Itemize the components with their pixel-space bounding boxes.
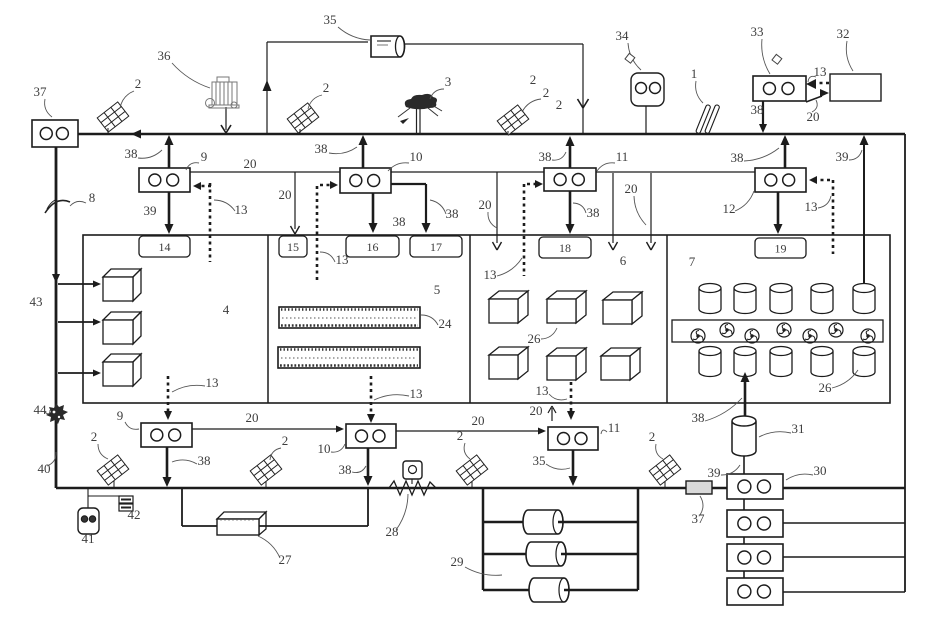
solar panel 2 (top-left) — [97, 102, 129, 132]
wire chiller1 right — [558, 521, 638, 523]
arrow down on storage return leg — [578, 99, 584, 108]
wire 20 lower from 9 to 10 — [192, 428, 340, 430]
bus flow arrow (left, toward meter 37) — [131, 130, 141, 139]
riser 39 from store bank to bus — [863, 142, 865, 284]
arrow 38 from unit 10 down to vent 16 — [372, 193, 375, 225]
svg-text:13: 13 — [536, 383, 549, 398]
wire: distribution line 20 between units 9-12 — [190, 171, 757, 173]
wire: generator 36 stem to bus — [225, 107, 227, 130]
svg-text:39: 39 — [708, 465, 721, 480]
arrow 38 from unit 11 down to vent 18 — [569, 191, 572, 226]
svg-text:2: 2 — [556, 97, 563, 112]
svg-text:37: 37 — [34, 84, 48, 99]
dashed command 13 from 32 to 33 — [814, 82, 829, 85]
wire to chiller 1 — [483, 521, 523, 523]
svg-text:4: 4 — [223, 302, 230, 317]
battery 42 — [119, 496, 133, 503]
arrow into pump 9 lower — [164, 411, 172, 420]
svg-text:41: 41 — [82, 531, 95, 546]
svg-text:26: 26 — [528, 331, 542, 346]
svg-text:30: 30 — [814, 463, 827, 478]
valve stack 30 box 2 — [727, 510, 783, 537]
wire from unit 10 to vent 17 — [391, 183, 426, 185]
meter 41 — [78, 508, 99, 534]
svg-text:13: 13 — [336, 252, 349, 267]
svg-text:24: 24 — [439, 316, 453, 331]
chiller 29-1 — [523, 510, 563, 534]
equipment cube — [601, 348, 640, 356]
fan tray in section 7 — [672, 320, 883, 342]
small arrow 20 up from lower 11 — [551, 408, 553, 421]
wire: storage 35 to down leg — [405, 43, 583, 45]
svg-text:13: 13 — [235, 202, 248, 217]
arrow 39 from unit 9 down to vent 14 — [168, 192, 171, 226]
svg-text:2: 2 — [91, 429, 98, 444]
stem — [299, 129, 301, 134]
svg-text:36: 36 — [158, 48, 172, 63]
svg-text:15: 15 — [287, 240, 299, 254]
stem — [664, 481, 666, 488]
svg-text:10: 10 — [318, 441, 331, 456]
svg-text:5: 5 — [434, 282, 441, 297]
grid feed 1 (hatch marks) — [696, 104, 720, 134]
valve stack 30 box 4 — [727, 578, 783, 605]
vent 14 — [139, 236, 190, 257]
svg-text:35: 35 — [533, 453, 546, 468]
wire stack box2 to right edge — [783, 522, 905, 524]
svg-text:13: 13 — [805, 199, 818, 214]
pump unit 9 (bottom row) — [141, 423, 192, 447]
burst icon 44 on left edge — [46, 403, 68, 424]
equipment cube — [547, 291, 586, 299]
solar panel 2 (bottom left-center) — [250, 455, 282, 485]
svg-text:20: 20 — [472, 413, 485, 428]
svg-text:13: 13 — [410, 386, 423, 401]
dashed command line 13 into unit 12 — [832, 180, 835, 254]
arrow from generator 36 into bus — [221, 125, 226, 133]
arrow from 33 into bus — [759, 124, 767, 133]
link — [743, 571, 745, 578]
wire: down leg from storage 35 to bus — [582, 44, 584, 134]
equipment cube row 2 — [489, 347, 528, 355]
pump unit 12 — [784, 143, 787, 168]
svg-text:26: 26 — [819, 380, 833, 395]
meter box 37 (grid connection, top-left) — [32, 120, 78, 147]
svg-text:38: 38 — [198, 453, 211, 468]
svg-text:38: 38 — [731, 150, 744, 165]
svg-text:14: 14 — [159, 240, 171, 254]
svg-text:39: 39 — [144, 203, 157, 218]
wire: drop from line 20 into section 5/6 wall area — [496, 172, 498, 243]
arrow into pump 11 lower — [567, 411, 575, 420]
wall between section 5 and 6 — [469, 235, 471, 403]
stem — [507, 131, 509, 134]
stem of 28 — [411, 479, 413, 484]
solar panel 2 (bottom center) — [456, 455, 488, 485]
vent 18 — [539, 237, 591, 258]
svg-text:2: 2 — [543, 85, 550, 100]
wire right drop of 27 loop — [367, 488, 369, 526]
wire to 27 — [182, 525, 217, 527]
load box 32 — [830, 74, 881, 101]
svg-text:39: 39 — [836, 149, 849, 164]
arrow 38 from lower 9 to bottom line — [166, 447, 169, 479]
svg-text:9: 9 — [117, 408, 124, 423]
equipment cube row 1 in section 6 — [489, 291, 528, 299]
solar panel 2 (bottom far-left) — [97, 455, 129, 485]
dashed command 13 in section 6 — [570, 382, 573, 413]
buffer tank 31 — [732, 416, 756, 456]
link — [743, 499, 745, 510]
svg-text:1: 1 — [691, 66, 698, 81]
svg-text:34: 34 — [616, 28, 630, 43]
outer enclosure right edge — [904, 134, 906, 592]
pump unit 10 (bottom row) — [346, 424, 396, 448]
svg-text:2: 2 — [282, 433, 289, 448]
svg-text:8: 8 — [89, 190, 96, 205]
svg-text:20: 20 — [246, 410, 259, 425]
server cabinet 23 — [103, 354, 141, 362]
chiller 29-2 — [526, 542, 566, 566]
heat exchanger 27 (3d box) — [217, 512, 266, 519]
svg-text:6: 6 — [620, 253, 627, 268]
arrow into vent 15 — [291, 226, 296, 234]
vibration zigzag on bottom line at 28 — [389, 481, 436, 495]
arrow up on riser — [263, 80, 272, 91]
svg-text:16: 16 — [367, 240, 379, 254]
arrow into vent 17 — [422, 223, 431, 233]
svg-text:2: 2 — [530, 72, 537, 87]
feed arrow into 22 — [58, 321, 97, 323]
svg-text:38: 38 — [315, 141, 328, 156]
wall between section 4 and 5 — [267, 235, 269, 403]
wire: riser from bus to storage 35 — [266, 42, 268, 134]
svg-text:19: 19 — [775, 242, 787, 256]
svg-text:12: 12 — [723, 201, 736, 216]
pump unit 10 — [362, 144, 365, 168]
pump unit 11 — [569, 144, 572, 168]
arrow at x651 — [647, 242, 652, 250]
wire to meter 41 — [87, 488, 89, 509]
wire to chiller 3 — [483, 589, 529, 591]
svg-text:38: 38 — [751, 102, 764, 117]
sensor 28 (box with circle) — [403, 461, 422, 479]
wire: drop from line 20 to vent 15 — [294, 172, 296, 229]
dashed command 13 in section 5 — [370, 376, 373, 416]
link — [743, 537, 745, 544]
svg-text:13: 13 — [484, 267, 497, 282]
svg-text:38: 38 — [125, 146, 138, 161]
meter box 33 (top-right) — [753, 76, 806, 101]
dashed command line 13 into unit 11 — [523, 184, 526, 276]
vent 16 — [346, 236, 399, 257]
arrow from unit 12 down to vent 19 — [777, 192, 780, 226]
svg-text:42: 42 — [128, 507, 141, 522]
wire buffer 31 to valve stack 30 — [743, 456, 745, 474]
wire: drop from line 20 into section 6 — [612, 173, 614, 243]
wire stack box4 to right edge — [783, 591, 905, 593]
storage tanks 26 top row in section 7 — [699, 284, 721, 314]
svg-text:10: 10 — [410, 149, 423, 164]
wire stack box3 to right edge — [783, 556, 905, 558]
outer enclosure top bus (main energy line) — [78, 133, 905, 136]
facility boundary rectangle (sections 4-7) — [83, 235, 890, 403]
svg-text:33: 33 — [751, 24, 764, 39]
feed arrow into 21 — [58, 283, 97, 285]
outer enclosure left edge — [55, 146, 58, 488]
rack row 24 (lower) — [278, 347, 420, 368]
chiller 29-3 — [529, 578, 569, 602]
vent 19 — [755, 238, 806, 258]
arrow at x613 — [609, 242, 614, 250]
svg-text:44: 44 — [34, 402, 48, 417]
server cabinet 22 — [103, 312, 141, 320]
chiller bank 29 right header — [637, 489, 640, 590]
svg-text:7: 7 — [689, 254, 696, 269]
svg-text:28: 28 — [386, 524, 399, 539]
arrow 38 from buffer 31 up into tank — [744, 380, 747, 416]
wire branch to battery 42 — [88, 495, 124, 497]
arrow into pump 10 lower — [367, 414, 375, 423]
arrow 20 from 33 to 32 — [806, 96, 822, 102]
dashed command 13 in section 4 — [167, 376, 170, 412]
equipment cube — [603, 292, 642, 300]
dashed command line 13 into unit 9 — [199, 185, 211, 188]
svg-text:20: 20 — [530, 403, 543, 418]
svg-text:18: 18 — [559, 241, 571, 255]
pump unit 9 — [168, 144, 171, 168]
svg-text:11: 11 — [616, 149, 629, 164]
svg-text:32: 32 — [837, 26, 850, 41]
outer enclosure bottom line — [56, 487, 905, 490]
svg-text:3: 3 — [445, 74, 452, 89]
arrow 35 from lower 11 to bottom line — [572, 450, 575, 478]
svg-text:31: 31 — [792, 421, 805, 436]
wire: drop from line 20 at section 6/7 wall — [650, 173, 652, 243]
stem — [265, 481, 267, 488]
stem — [471, 481, 473, 488]
svg-text:29: 29 — [451, 554, 464, 569]
svg-text:20: 20 — [625, 181, 638, 196]
svg-text:2: 2 — [457, 428, 464, 443]
rack row 24 (upper) — [279, 307, 420, 328]
dashed command line 13 into unit 10 — [316, 186, 319, 280]
arrow 38 from lower 10 to bottom line — [367, 448, 370, 478]
server cabinet 21 — [103, 269, 141, 277]
svg-text:38: 38 — [692, 410, 705, 425]
wind/tree unit 3 — [398, 94, 442, 134]
wire: unit 34 stem to bus — [645, 106, 647, 134]
svg-text:38: 38 — [539, 149, 552, 164]
pump unit 11 (bottom row) — [548, 427, 598, 450]
svg-text:2: 2 — [649, 429, 656, 444]
wire chiller2 right — [561, 553, 638, 555]
wire chiller3 right — [564, 589, 638, 591]
svg-text:38: 38 — [339, 462, 352, 477]
svg-text:13: 13 — [206, 375, 219, 390]
wire: top run to storage 35 — [267, 41, 368, 43]
svg-text:17: 17 — [430, 240, 442, 254]
equipment cube — [547, 348, 586, 356]
disconnect 8 (arc on left edge line) — [45, 200, 70, 213]
svg-text:11: 11 — [608, 420, 621, 435]
arrow at x497 — [493, 242, 498, 250]
wire from 27 to right drop — [259, 525, 368, 527]
vent 17 — [410, 236, 462, 257]
svg-text:38: 38 — [587, 205, 600, 220]
svg-text:2: 2 — [323, 80, 330, 95]
wire: unit 33 drop to bus — [762, 101, 764, 126]
svg-text:35: 35 — [324, 12, 337, 27]
wire 20 lower from 10 to 11 — [396, 430, 542, 432]
inline unit 37 (bottom) — [686, 481, 712, 494]
svg-text:27: 27 — [279, 552, 293, 567]
vent 15 — [279, 236, 307, 257]
valve stack 30 box 3 — [727, 544, 783, 571]
generator 36 icon — [206, 77, 240, 108]
solar panel 2 (center-right) — [497, 105, 529, 135]
storage tank 35 (horizontal cylinder) — [371, 36, 405, 57]
svg-text:38: 38 — [446, 206, 459, 221]
feed arrow into 23 — [58, 372, 97, 374]
svg-text:2: 2 — [135, 76, 142, 91]
control unit 34 — [631, 73, 664, 106]
svg-text:20: 20 — [279, 187, 292, 202]
solar panel 2 (bottom right) — [649, 455, 681, 485]
valve stack 30 box 1 — [727, 474, 783, 499]
svg-text:20: 20 — [244, 156, 257, 171]
svg-text:37: 37 — [692, 511, 706, 526]
svg-text:9: 9 — [201, 149, 208, 164]
svg-text:38: 38 — [393, 214, 406, 229]
stem of top-left panel — [107, 128, 109, 133]
solar panel 2 (second from left) — [287, 103, 319, 133]
wire to chiller 2 — [483, 553, 526, 555]
chiller bank 29 left header — [482, 489, 485, 590]
svg-text:43: 43 — [30, 294, 43, 309]
svg-text:40: 40 — [38, 461, 51, 476]
storage tanks 26 bottom row in section 7 — [699, 347, 721, 377]
wall between section 6 and 7 — [666, 235, 668, 403]
heat exchanger 27 loop wire (left drop) — [181, 488, 183, 526]
stem — [113, 481, 115, 488]
svg-text:20: 20 — [479, 197, 492, 212]
left edge flow arrow — [52, 274, 60, 283]
